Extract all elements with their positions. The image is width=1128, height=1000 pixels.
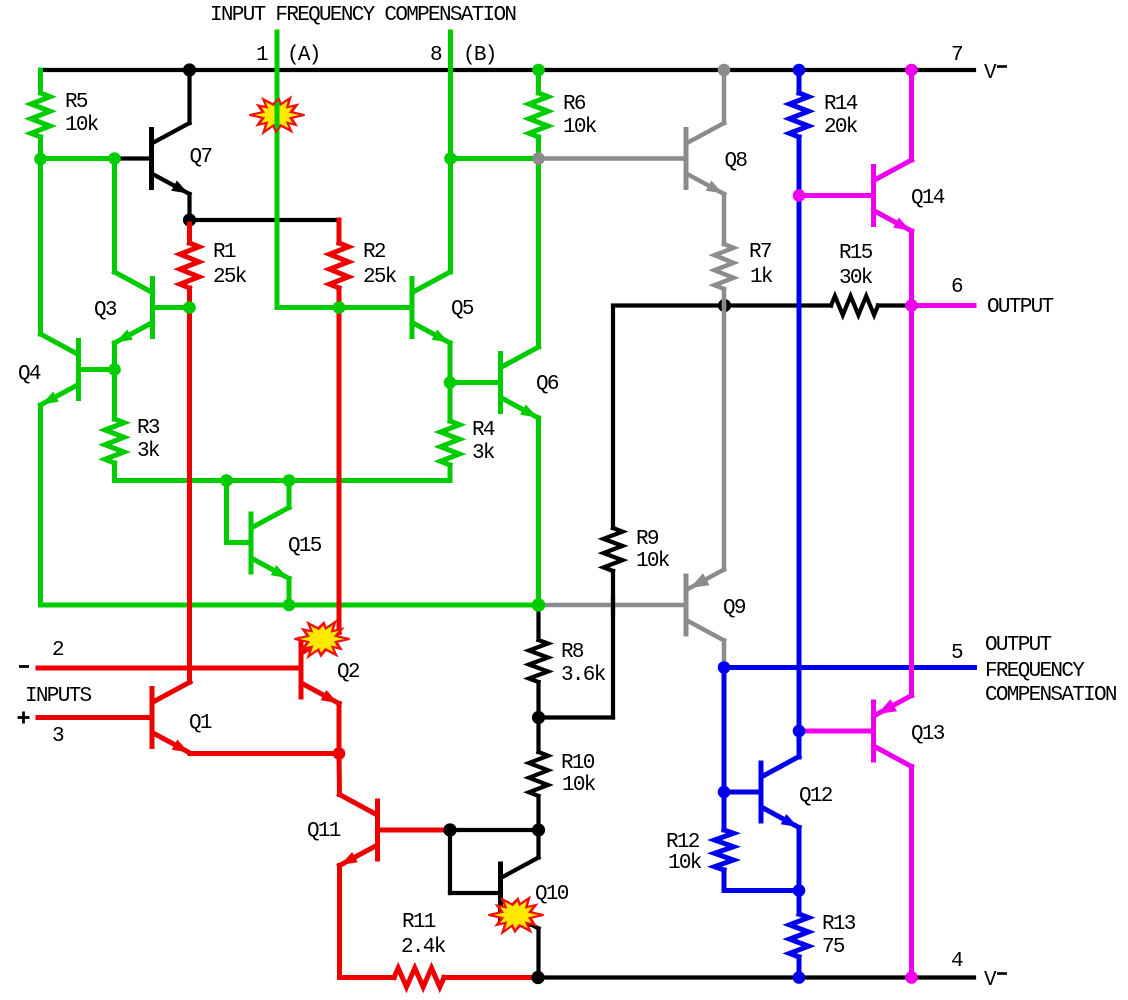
junction Q4 base node	[108, 363, 121, 376]
junction Q8 collector on rail	[718, 64, 731, 77]
resistor R3	[105, 419, 124, 463]
spark flash 1 (pin 1 input comp)	[250, 98, 305, 133]
junction R13 on bottom rail	[793, 971, 806, 984]
svg-text:FREQUENCY: FREQUENCY	[985, 660, 1085, 683]
wire: Q9 emitter riser	[722, 306, 727, 570]
svg-text:Q3: Q3	[94, 299, 117, 322]
junction Q3 base / R1 bottom	[183, 301, 196, 314]
wire: output stub to pin 6	[912, 303, 975, 308]
wire: Q2 emitter leg	[337, 704, 342, 754]
wire: Q10 emitter to rail	[536, 929, 540, 978]
wire: R12 bottom corner	[724, 870, 799, 891]
transistor Q8	[684, 130, 689, 188]
svg-text:(B): (B)	[463, 44, 496, 67]
junction Q5 base / R2 bottom	[333, 301, 346, 314]
wire: R9 top from output node	[613, 306, 725, 529]
junction Q14 collector on rail	[905, 64, 918, 77]
wire: R12 top lead	[722, 792, 727, 830]
junction R5 bottom	[34, 153, 47, 166]
transistor Q14	[871, 167, 876, 225]
svg-text:6: 6	[951, 276, 963, 299]
wire: Q15 base leg	[227, 481, 249, 543]
svg-text:2.4k: 2.4k	[401, 936, 446, 959]
junction Q10 base branch (redraw)	[443, 823, 456, 836]
wire: R5 node down to Q4 collector	[38, 159, 43, 334]
svg-text:R2: R2	[363, 241, 386, 264]
wire: pin 5 line	[724, 665, 975, 670]
wire: Q15 emitter leg	[287, 579, 292, 606]
svg-text:5: 5	[951, 642, 963, 665]
svg-text:1: 1	[256, 44, 268, 67]
wire: long green bus	[41, 603, 539, 608]
transistor Q15	[249, 514, 254, 572]
wire: R8 bottom lead	[536, 682, 540, 718]
resistor R14	[790, 93, 809, 137]
wire: V- bottom rail (pin 4)	[538, 975, 974, 979]
wire: Q15 collector leg	[287, 481, 292, 508]
svg-text:Q5: Q5	[451, 298, 474, 321]
svg-text:7: 7	[951, 44, 962, 67]
transistor Q6	[498, 354, 503, 412]
svg-text:R10: R10	[561, 752, 595, 775]
transistor Q12	[759, 763, 764, 821]
wire: R6 bottom lead	[536, 137, 541, 159]
wire: output node down to Q13 emitter	[909, 306, 914, 696]
wire: R7 bottom lead	[722, 289, 727, 306]
junction bottom rail at Q10	[531, 971, 544, 984]
wire: Q13 base	[799, 729, 871, 734]
wire: Q9 base from green bus	[539, 603, 684, 608]
svg-text:Q13: Q13	[911, 723, 945, 746]
wire: R10 bottom lead	[536, 796, 540, 830]
svg-text:10k: 10k	[562, 774, 596, 797]
wire: Q11 emitter down leg	[340, 866, 395, 978]
svg-text:R3: R3	[137, 417, 160, 440]
svg-text:COMPENSATION: COMPENSATION	[985, 684, 1116, 707]
svg-text:R12: R12	[666, 831, 700, 854]
junction node under Q7	[183, 213, 196, 226]
junction pin8/R6 link	[444, 152, 457, 165]
wire: Q4 emitter down leg	[38, 405, 43, 605]
spark flash 3 (Q10 emitter)	[489, 898, 544, 933]
svg-text:Q12: Q12	[799, 785, 833, 808]
junction R14 top on rail	[793, 64, 806, 77]
svg-text:INPUTS: INPUTS	[25, 685, 92, 708]
svg-text:R5: R5	[65, 91, 88, 114]
svg-text:3k: 3k	[472, 442, 495, 465]
wire: pin 2 input line	[38, 666, 299, 671]
wire: Q6 base	[450, 380, 498, 385]
svg-text:R14: R14	[824, 93, 858, 116]
wire: R15 to output node	[878, 303, 912, 307]
svg-text:INPUT FREQUENCY COMPENSATION: INPUT FREQUENCY COMPENSATION	[210, 4, 515, 27]
svg-text:OUTPUT: OUTPUT	[985, 634, 1052, 657]
junction Q7 base node	[108, 152, 121, 165]
wire: Q7 emitter down to node	[187, 194, 191, 220]
svg-text:10k: 10k	[668, 852, 702, 875]
label + (non-inverting input)	[18, 716, 30, 719]
svg-text:R13: R13	[822, 913, 856, 936]
svg-text:10k: 10k	[563, 116, 597, 139]
transistor Q10	[498, 864, 503, 922]
junction Q15 emitter on bus	[283, 599, 296, 612]
svg-text:25k: 25k	[213, 266, 247, 289]
wire: R9 bottom leg	[611, 571, 615, 718]
junction Q15 collector tap	[283, 474, 296, 487]
spark flash 2 (Q2 collector)	[295, 622, 350, 657]
wire: Q8 collector to rail	[722, 70, 727, 123]
wire: R5 node to Q7 base node	[41, 156, 115, 161]
wire: R10 top lead	[536, 718, 540, 753]
svg-text:OUTPUT: OUTPUT	[987, 296, 1054, 319]
svg-text:Q4: Q4	[18, 363, 41, 386]
wire: pin8 node to R6 node	[451, 156, 539, 161]
resistor R10	[529, 752, 548, 796]
svg-text:R15: R15	[839, 242, 873, 265]
wire: node to Q10 base branch	[450, 828, 539, 832]
wire: R13 bottom lead	[797, 957, 802, 978]
svg-text:2: 2	[52, 639, 64, 662]
junction green bus / R8 node	[532, 598, 546, 612]
junction Q15 base tap	[220, 474, 233, 487]
transistor Q9	[684, 576, 689, 634]
wire: R14 bottom long leg	[797, 137, 802, 757]
svg-text:(A): (A)	[287, 44, 320, 67]
wire: R4 bottom corner	[448, 465, 453, 481]
wire: pin5 node down to Q12 base node	[722, 668, 727, 793]
transistor Q4	[76, 341, 81, 399]
transistor Q2	[299, 639, 304, 697]
wire: Q3 emitter to Q4 base node	[112, 343, 117, 370]
resistor R15	[831, 296, 878, 315]
svg-text:R7: R7	[749, 241, 771, 264]
wire: R9 to R8 node	[539, 715, 614, 719]
wire: Q14 collector riser	[909, 70, 914, 160]
junction Q10 base branch	[443, 823, 456, 836]
wire: Q6 collector riser	[536, 159, 541, 348]
wire: R2 top lead	[337, 220, 342, 243]
svg-text:Q15: Q15	[288, 535, 322, 558]
resistor R5	[31, 93, 50, 137]
svg-text:Q9: Q9	[723, 597, 746, 620]
wire: Q4 base	[81, 367, 115, 372]
wire: R11 to bottom rail node	[444, 975, 538, 980]
wire: node to R2 top	[190, 218, 340, 222]
svg-text:R9: R9	[636, 528, 659, 551]
junction Q13 base node (redraw over magenta)	[793, 725, 806, 738]
wire: Q6 emitter down leg	[536, 418, 541, 605]
resistor R13	[790, 914, 809, 957]
svg-text:R6: R6	[563, 93, 586, 116]
junction Q6 base node	[444, 376, 457, 389]
junction R6/Q8 base node	[532, 152, 545, 165]
wire: Q10 collector riser	[536, 830, 540, 858]
transistor Q3	[150, 279, 155, 337]
junction Q13 collector on rail (pin 4)	[905, 971, 918, 984]
svg-text:Q14: Q14	[911, 187, 945, 210]
wire: R6 top lead	[536, 70, 541, 93]
svg-text:R8: R8	[561, 641, 584, 664]
junction Q12 base tap	[718, 786, 731, 799]
resistor R8	[529, 640, 548, 682]
wire: R9 leg crossing overdraw	[611, 596, 615, 614]
wire: Q14 base	[799, 193, 871, 198]
wire: R3 bottom to current-mirror rail	[115, 463, 451, 481]
wire: pin 3 input line / Q1 base	[38, 715, 150, 720]
resistor R4	[441, 421, 460, 465]
transistor Q13	[871, 702, 876, 760]
wire: Q5 emitter to Q6 base node	[448, 343, 453, 383]
svg-text:3: 3	[52, 725, 64, 748]
svg-text:R11: R11	[402, 911, 436, 934]
svg-text:1k: 1k	[750, 266, 773, 289]
wire: Q10 base down-leg	[448, 830, 452, 893]
transistor Q1	[150, 689, 155, 747]
wire: Q8 emitter to R7	[722, 194, 727, 244]
resistor R11	[394, 968, 444, 987]
junction Q12 emitter node	[793, 884, 806, 897]
wire: R5 top lead	[38, 70, 43, 93]
wire: R4 top lead	[448, 383, 453, 422]
junction R10/Q10 collector node	[532, 823, 545, 836]
wire: Q7 collector to rail	[187, 70, 191, 123]
transistor Q11	[375, 801, 380, 859]
svg-text:3k: 3k	[137, 440, 160, 463]
transistor Q5	[410, 279, 415, 337]
wire: Q5 base	[339, 305, 410, 310]
junction on rail (Q7 collector)	[183, 63, 196, 76]
wire: R1 bottom to Q1 collector	[187, 288, 192, 682]
wire: pin 1 (A) lead	[277, 32, 339, 308]
svg-text:Q11: Q11	[307, 820, 341, 843]
wire: R5 bottom lead	[38, 137, 43, 159]
wire: emitters node to Q11 collector	[337, 754, 343, 795]
junction R6 top on rail	[532, 64, 545, 77]
svg-text:4: 4	[951, 950, 963, 973]
wire: R14 top lead	[797, 70, 802, 93]
resistor R1	[180, 243, 199, 288]
svg-text:R4: R4	[472, 419, 495, 442]
svg-text:10k: 10k	[636, 550, 670, 573]
wire: Q1 emitter to common node	[190, 751, 339, 756]
wire: Q12 base	[724, 790, 758, 795]
wire: Q10 base	[450, 891, 498, 895]
junction diff-pair emitters	[333, 747, 346, 760]
wire: R8 top lead	[536, 605, 540, 640]
resistor R12	[715, 830, 734, 870]
spark outline 1	[250, 98, 305, 133]
wire: pin 8 (B) lead / Q5 collector	[448, 32, 453, 272]
wire: Q11 base to Q10 branch node	[380, 828, 450, 833]
svg-text:10k: 10k	[65, 114, 99, 137]
wire: Q9 collector to pin5 node	[722, 641, 727, 668]
label - (inverting input)	[19, 665, 29, 668]
svg-text:20k: 20k	[824, 116, 858, 139]
wire: Q12 emitter leg	[797, 828, 802, 891]
wire: R2 bottom to Q2 collector	[337, 288, 342, 633]
junction Q14 base node	[793, 189, 806, 202]
junction R7 bottom node	[718, 299, 731, 312]
resistor R9	[604, 528, 623, 571]
wire: node down to Q3 collector	[112, 159, 117, 273]
svg-text:Q7: Q7	[190, 146, 212, 169]
svg-text:Q10: Q10	[535, 883, 569, 906]
wire: V- top rail (pin 7)	[41, 68, 975, 72]
wire: Q8 base	[539, 156, 684, 161]
junction R8/R10/R9 node	[532, 711, 545, 724]
resistor R6	[529, 93, 548, 137]
svg-text:3.6k: 3.6k	[561, 664, 606, 687]
junction bottom rail at Q10 (redraw)	[531, 971, 544, 984]
svg-text:Q2: Q2	[337, 661, 360, 684]
svg-text:25k: 25k	[363, 266, 397, 289]
wire: Q13 collector to bottom rail	[909, 767, 914, 978]
resistor R2	[330, 243, 349, 288]
svg-text:R1: R1	[213, 241, 236, 264]
svg-text:75: 75	[822, 936, 845, 959]
wire: Q7 base from node	[115, 156, 150, 160]
wire: output line to R15	[725, 303, 832, 307]
junction Q9 collector on pin5	[718, 661, 731, 674]
transistor Q7	[149, 130, 154, 188]
wire: R1 top lead	[187, 224, 192, 243]
wire: R3 top lead	[112, 370, 117, 420]
wire: Q3 base to R1 node	[155, 305, 190, 310]
svg-text:Q1: Q1	[189, 712, 212, 735]
wire: R13 top lead	[797, 891, 802, 915]
wire: Q14 emitter to output node	[909, 231, 914, 306]
svg-text:Q8: Q8	[725, 150, 748, 173]
svg-text:8: 8	[430, 44, 442, 67]
resistor R7	[715, 244, 734, 289]
svg-text:30k: 30k	[839, 267, 873, 290]
svg-text:Q6: Q6	[536, 373, 559, 396]
junction output node (pin 6)	[905, 299, 918, 312]
